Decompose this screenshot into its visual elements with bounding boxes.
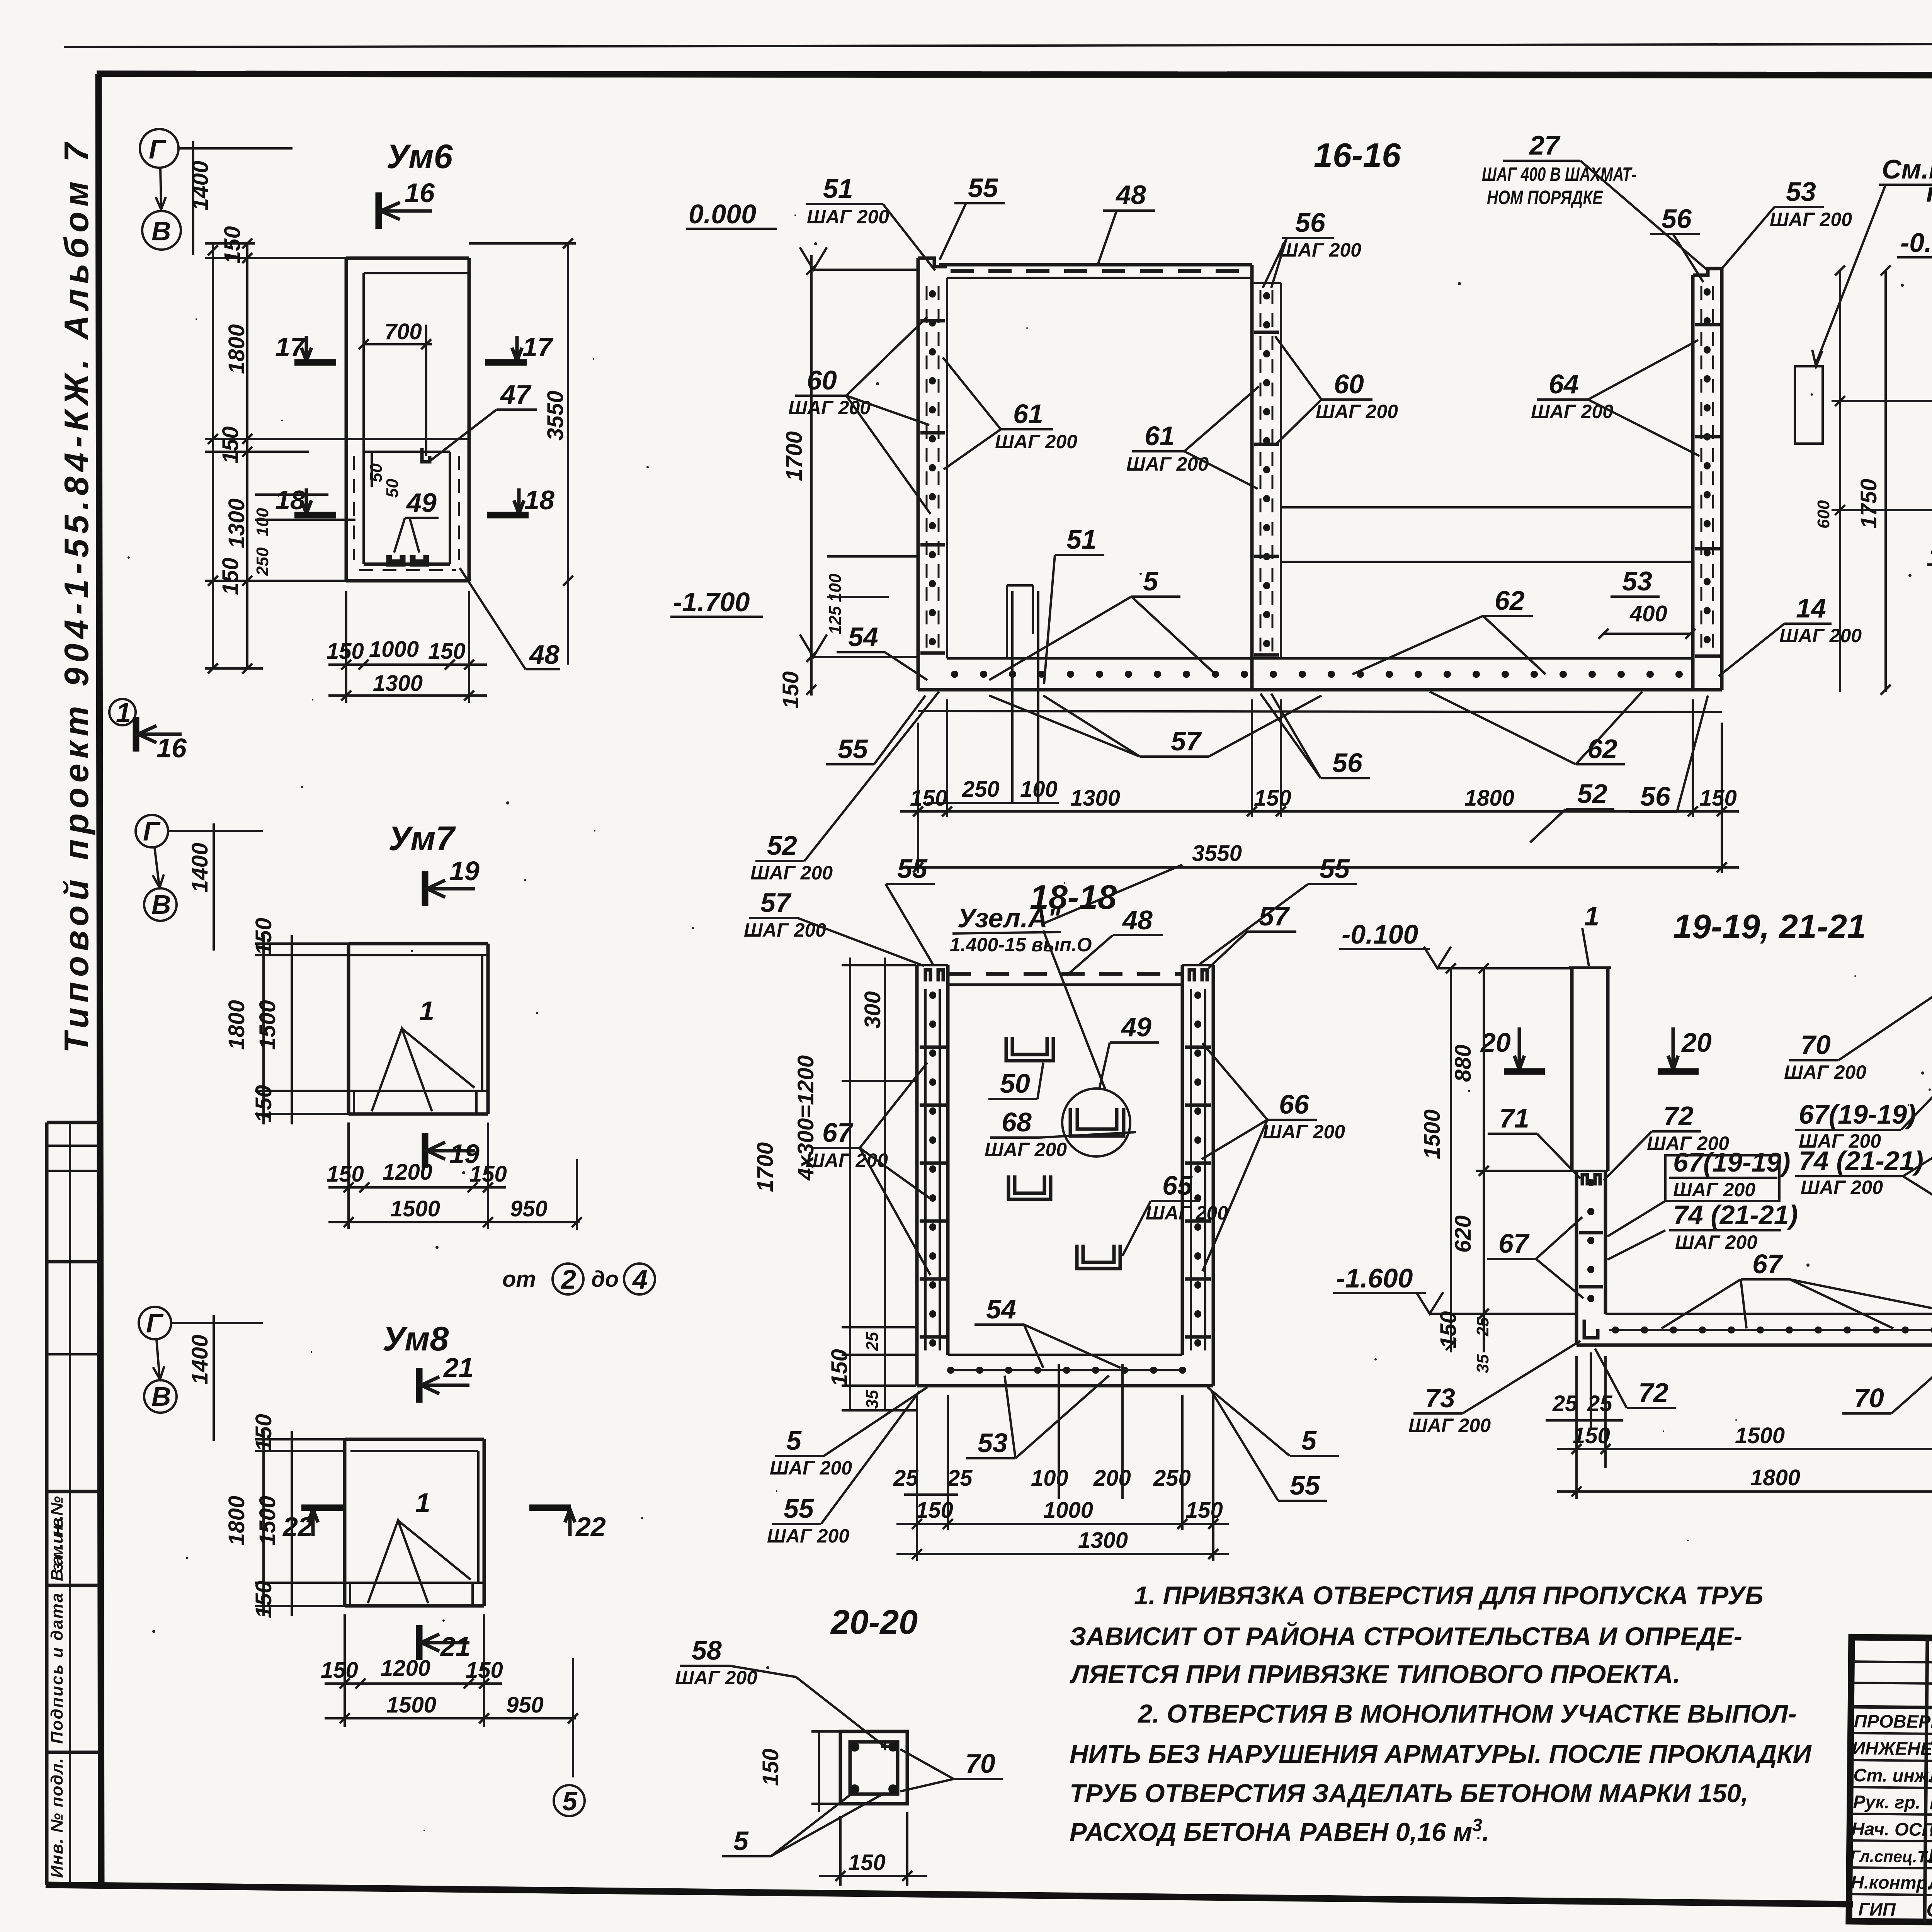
- svg-text:1: 1: [419, 996, 434, 1026]
- svg-text:-0.100: -0.100: [1900, 228, 1932, 258]
- svg-text:55: 55: [784, 1493, 814, 1524]
- svg-text:ШАГ 200: ШАГ 200: [985, 1139, 1067, 1160]
- svg-text:1300: 1300: [1070, 786, 1120, 811]
- svg-text:100: 100: [253, 508, 272, 536]
- svg-text:1500: 1500: [1420, 1109, 1445, 1159]
- svg-text:2. ОТВЕРСТИЯ В МОНОЛИТНОМ У: 2. ОТВЕРСТИЯ В МОНОЛИТНОМ УЧАСТКЕ ВЫПОЛ-: [1137, 1699, 1797, 1728]
- svg-text:ГИП: ГИП: [1858, 1899, 1896, 1920]
- svg-text:74 (21-21): 74 (21-21): [1799, 1146, 1923, 1176]
- svg-text:Г: Г: [143, 816, 161, 846]
- svg-text:ШАГ 200: ШАГ 200: [1779, 625, 1862, 646]
- svg-text:п. N1: п. N1: [1926, 177, 1932, 207]
- svg-text:ПРОВЕРИЛ: ПРОВЕРИЛ: [1854, 1711, 1932, 1732]
- svg-text:В: В: [151, 216, 171, 246]
- svg-text:19-19, 21-21: 19-19, 21-21: [1673, 907, 1866, 946]
- svg-text:1: 1: [116, 697, 131, 728]
- svg-text:14: 14: [1796, 593, 1826, 623]
- svg-text:55: 55: [838, 734, 868, 764]
- svg-text:1500: 1500: [255, 1496, 280, 1546]
- svg-text:700: 700: [384, 319, 422, 344]
- svg-text:70: 70: [965, 1748, 995, 1779]
- svg-text:150: 150: [848, 1850, 886, 1875]
- svg-text:150: 150: [220, 226, 245, 264]
- svg-text:3550: 3550: [543, 391, 568, 440]
- svg-text:56: 56: [1640, 781, 1671, 811]
- svg-text:ШАГ 200: ШАГ 200: [1673, 1179, 1755, 1201]
- svg-text:49: 49: [406, 488, 437, 518]
- svg-text:66: 66: [1279, 1089, 1310, 1119]
- svg-text:74 (21-21): 74 (21-21): [1673, 1200, 1798, 1230]
- svg-text:150: 150: [251, 1581, 276, 1618]
- svg-text:Н.контр.: Н.контр.: [1851, 1872, 1932, 1893]
- svg-text:150: 150: [916, 1498, 953, 1523]
- svg-text:150: 150: [327, 639, 364, 664]
- svg-text:17: 17: [522, 332, 554, 362]
- svg-text:57: 57: [1259, 901, 1290, 931]
- svg-text:5: 5: [1143, 566, 1158, 596]
- svg-text:ЗАВИСИТ ОТ РАЙОНА СТРОИТЕЛЬ: ЗАВИСИТ ОТ РАЙОНА СТРОИТЕЛЬСТВА И ОПРЕДЕ…: [1070, 1622, 1742, 1651]
- svg-text:72: 72: [1663, 1101, 1694, 1131]
- svg-text:150: 150: [466, 1658, 503, 1683]
- svg-text:18: 18: [275, 485, 305, 515]
- svg-text:ШАГ 200: ШАГ 200: [1316, 401, 1398, 422]
- svg-text:1500: 1500: [1735, 1423, 1785, 1448]
- svg-text:250: 250: [962, 777, 1000, 802]
- svg-text:ШАГ 200: ШАГ 200: [1408, 1415, 1491, 1436]
- svg-text:Г: Г: [149, 134, 167, 164]
- svg-text:4х300=1200: 4х300=1200: [793, 1055, 818, 1181]
- svg-text:56: 56: [1295, 207, 1326, 238]
- svg-text:150: 150: [251, 1085, 276, 1122]
- svg-text:ШАГ 200: ШАГ 200: [807, 206, 889, 228]
- svg-text:ИНЖЕНЕР: ИНЖЕНЕР: [1852, 1738, 1932, 1759]
- svg-text:5: 5: [1301, 1425, 1317, 1456]
- svg-text:НОМ ПОРЯДКЕ: НОМ ПОРЯДКЕ: [1487, 187, 1603, 208]
- svg-text:57: 57: [760, 888, 792, 918]
- svg-text:Ум8: Ум8: [383, 1320, 449, 1358]
- svg-text:от: от: [502, 1267, 536, 1292]
- svg-text:-0.100: -0.100: [1342, 919, 1418, 949]
- svg-text:1700: 1700: [753, 1142, 778, 1192]
- svg-text:150: 150: [1254, 786, 1291, 811]
- svg-text:Ст. инж.: Ст. инж.: [1853, 1765, 1932, 1786]
- svg-text:150: 150: [758, 1748, 783, 1786]
- svg-text:54: 54: [848, 622, 878, 652]
- svg-text:Типовой проект 904-1-55.84-К: Типовой проект 904-1-55.84-КЖ. Альбом 7: [57, 141, 95, 1053]
- svg-text:67: 67: [822, 1117, 854, 1148]
- svg-text:73: 73: [1425, 1383, 1455, 1413]
- svg-text:МОРГУНОВ: МОРГУНОВ: [1930, 1791, 1932, 1815]
- svg-text:-1.600: -1.600: [1336, 1263, 1413, 1293]
- svg-text:1800: 1800: [1750, 1465, 1800, 1490]
- svg-text:ШАГ 200: ШАГ 200: [1675, 1231, 1757, 1253]
- svg-text:См.примечание: См.примечание: [1882, 154, 1932, 184]
- svg-text:МАКАРОВА: МАКАРОВА: [1930, 1765, 1932, 1788]
- svg-text:1500: 1500: [255, 1000, 280, 1050]
- svg-text:61: 61: [1013, 399, 1043, 429]
- svg-text:ЛЯЕТСЯ ПРИ ПРИВЯЗКЕ ТИПОВОГ: ЛЯЕТСЯ ПРИ ПРИВЯЗКЕ ТИПОВОГО ПРОЕКТА.: [1069, 1660, 1680, 1689]
- svg-text:150: 150: [251, 918, 276, 955]
- svg-text:1750: 1750: [1856, 479, 1881, 529]
- svg-text:16: 16: [405, 178, 435, 208]
- svg-text:Толмачева: Толмачева: [1929, 1738, 1932, 1761]
- svg-text:ШАГ 200: ШАГ 200: [1279, 239, 1361, 261]
- svg-text:25: 25: [893, 1466, 918, 1491]
- svg-text:620: 620: [1451, 1215, 1476, 1253]
- svg-text:35: 35: [1473, 1354, 1492, 1373]
- svg-text:Узел.А": Узел.А": [957, 903, 1061, 933]
- svg-text:ТРУБ ОТВЕРСТИЯ ЗАДЕЛАТЬ БЕТ: ТРУБ ОТВЕРСТИЯ ЗАДЕЛАТЬ БЕТОНОМ МАРКИ 15…: [1070, 1779, 1748, 1808]
- svg-text:до: до: [591, 1267, 619, 1292]
- svg-text:60: 60: [1334, 369, 1364, 399]
- svg-text:50: 50: [1000, 1068, 1030, 1099]
- svg-text:4: 4: [632, 1264, 648, 1294]
- svg-text:47: 47: [500, 379, 532, 410]
- svg-text:22: 22: [282, 1512, 313, 1542]
- svg-text:22: 22: [575, 1512, 606, 1542]
- svg-text:20-20: 20-20: [830, 1603, 918, 1641]
- svg-text:0.000: 0.000: [689, 199, 756, 229]
- svg-text:21: 21: [443, 1352, 474, 1383]
- svg-text:48: 48: [529, 639, 560, 670]
- svg-text:51: 51: [1066, 524, 1097, 554]
- svg-text:Ум7: Ум7: [388, 819, 456, 857]
- svg-text:ШАГ 400 В ШАХМАТ-: ШАГ 400 В ШАХМАТ-: [1482, 163, 1636, 185]
- svg-text:25: 25: [947, 1466, 973, 1491]
- svg-text:55: 55: [1320, 854, 1350, 884]
- svg-text:17: 17: [275, 332, 306, 362]
- svg-text:ШАГ 200: ШАГ 200: [744, 919, 826, 941]
- svg-text:1: 1: [1584, 901, 1599, 931]
- svg-text:-1.525: -1.525: [1930, 535, 1932, 565]
- svg-text:150: 150: [251, 1414, 276, 1451]
- svg-text:62: 62: [1587, 734, 1617, 764]
- svg-text:62: 62: [1495, 585, 1525, 616]
- svg-text:200: 200: [1093, 1466, 1131, 1491]
- svg-text:1300: 1300: [224, 498, 249, 548]
- svg-text:67: 67: [1752, 1249, 1784, 1279]
- svg-text:58: 58: [692, 1635, 722, 1665]
- svg-text:Гл.спец.Т.О.: Гл.спец.Т.О.: [1850, 1847, 1932, 1866]
- svg-text:56: 56: [1332, 748, 1363, 778]
- svg-text:55: 55: [968, 173, 998, 203]
- svg-text:ШАГ 200: ШАГ 200: [770, 1457, 852, 1479]
- svg-text:1. ПРИВЯЗКА ОТВЕРСТИЯ ДЛЯ П: 1. ПРИВЯЗКА ОТВЕРСТИЯ ДЛЯ ПРОПУСКА ТРУБ: [1134, 1581, 1763, 1610]
- svg-text:-1.700: -1.700: [673, 587, 750, 617]
- svg-text:5: 5: [562, 1786, 578, 1816]
- svg-text:600: 600: [1814, 500, 1833, 529]
- svg-text:150: 150: [1573, 1423, 1610, 1448]
- svg-text:НИТЬ БЕЗ НАРУШЕНИЯ АРМАТУРЫ: НИТЬ БЕЗ НАРУШЕНИЯ АРМАТУРЫ. ПОСЛЕ ПРОКЛ…: [1070, 1740, 1812, 1769]
- svg-text:21: 21: [440, 1631, 471, 1662]
- svg-text:300: 300: [860, 991, 885, 1029]
- svg-text:19: 19: [449, 856, 480, 886]
- svg-text:67: 67: [1498, 1228, 1530, 1259]
- svg-text:1.400-15 вып.О: 1.400-15 вып.О: [950, 934, 1092, 956]
- svg-text:67(19-19): 67(19-19): [1799, 1099, 1916, 1129]
- svg-text:1800: 1800: [224, 1000, 249, 1050]
- svg-text:400: 400: [1629, 601, 1667, 626]
- svg-text:27: 27: [1529, 130, 1561, 160]
- svg-text:150: 150: [1436, 1311, 1461, 1349]
- svg-text:1700: 1700: [782, 431, 807, 481]
- svg-text:ШАГ 200: ШАГ 200: [1801, 1177, 1883, 1198]
- svg-text:64: 64: [1549, 369, 1579, 399]
- svg-text:150: 150: [218, 558, 243, 595]
- svg-text:18: 18: [524, 485, 554, 515]
- svg-text:20: 20: [1681, 1027, 1712, 1058]
- svg-text:Инв. № подл.: Инв. № подл.: [48, 1758, 66, 1878]
- svg-text:150: 150: [910, 786, 947, 811]
- svg-text:Нач. ОСП: Нач. ОСП: [1851, 1818, 1932, 1840]
- svg-text:ШАГ 200: ШАГ 200: [1531, 401, 1613, 422]
- svg-text:ШАГ 200: ШАГ 200: [1146, 1202, 1228, 1224]
- svg-text:Взам. инв. №: Взам. инв. №: [48, 1496, 66, 1581]
- svg-text:1800: 1800: [224, 324, 249, 374]
- svg-text:100: 100: [1031, 1466, 1068, 1491]
- svg-text:Ум6: Ум6: [386, 137, 453, 175]
- svg-text:150: 150: [327, 1162, 364, 1187]
- svg-text:250: 250: [1153, 1466, 1191, 1491]
- svg-text:71: 71: [1499, 1103, 1529, 1133]
- svg-text:ШАГ 200: ШАГ 200: [767, 1525, 849, 1547]
- svg-text:72: 72: [1638, 1378, 1668, 1408]
- svg-text:В: В: [151, 1381, 171, 1412]
- svg-text:1200: 1200: [383, 1160, 432, 1185]
- svg-text:61: 61: [1145, 421, 1175, 451]
- svg-text:950: 950: [506, 1692, 544, 1718]
- svg-text:53: 53: [1786, 177, 1816, 207]
- svg-text:16: 16: [156, 733, 187, 763]
- svg-text:48: 48: [1122, 905, 1153, 935]
- svg-text:880: 880: [1451, 1044, 1476, 1082]
- svg-text:ШАГ 200: ШАГ 200: [1263, 1121, 1345, 1143]
- svg-text:1500: 1500: [390, 1196, 440, 1221]
- svg-text:5: 5: [786, 1425, 802, 1456]
- svg-text:ШАГ 200: ШАГ 200: [750, 862, 833, 884]
- svg-text:Боярченко: Боярченко: [1928, 1845, 1932, 1869]
- svg-text:Рук. гр.: Рук. гр.: [1853, 1791, 1921, 1813]
- svg-text:51: 51: [823, 173, 853, 204]
- svg-text:55: 55: [897, 854, 928, 884]
- svg-text:52: 52: [767, 830, 797, 861]
- svg-text:52: 52: [1577, 779, 1607, 809]
- svg-text:1200: 1200: [381, 1656, 430, 1681]
- svg-text:2: 2: [560, 1264, 576, 1294]
- svg-text:65: 65: [1162, 1170, 1193, 1201]
- svg-text:67(19-19): 67(19-19): [1673, 1147, 1791, 1177]
- svg-text:48: 48: [1115, 180, 1146, 210]
- svg-text:150: 150: [827, 1349, 852, 1386]
- svg-text:1000: 1000: [1043, 1498, 1093, 1523]
- svg-text:54: 54: [986, 1294, 1016, 1324]
- svg-text:1400: 1400: [188, 161, 213, 211]
- svg-text:25: 25: [1552, 1391, 1578, 1416]
- svg-text:150: 150: [778, 671, 803, 709]
- svg-text:РАСХОД БЕТОНА РАВЕН 0,16 м3: РАСХОД БЕТОНА РАВЕН 0,16 м3.: [1070, 1815, 1489, 1847]
- svg-text:1000: 1000: [369, 637, 419, 662]
- svg-text:ШАГ 200: ШАГ 200: [995, 431, 1077, 452]
- svg-text:СААКЬЯНЦ: СААКЬЯНЦ: [1929, 1818, 1932, 1842]
- svg-text:70: 70: [1801, 1030, 1831, 1060]
- svg-text:68: 68: [1002, 1107, 1032, 1137]
- svg-text:57: 57: [1171, 726, 1202, 756]
- svg-text:55: 55: [1290, 1470, 1320, 1500]
- svg-text:16-16: 16-16: [1314, 136, 1401, 174]
- svg-text:1500: 1500: [386, 1692, 436, 1718]
- svg-text:25: 25: [863, 1332, 882, 1351]
- svg-text:150: 150: [321, 1658, 358, 1683]
- svg-text:5: 5: [733, 1826, 749, 1856]
- svg-text:49: 49: [1121, 1012, 1151, 1042]
- svg-text:53: 53: [978, 1428, 1008, 1458]
- svg-text:1400: 1400: [187, 843, 213, 893]
- svg-text:150: 150: [218, 426, 243, 464]
- svg-text:Г: Г: [146, 1308, 164, 1338]
- svg-text:150: 150: [469, 1162, 507, 1187]
- svg-text:950: 950: [510, 1196, 548, 1221]
- svg-text:50: 50: [383, 479, 402, 498]
- svg-text:35: 35: [863, 1390, 882, 1409]
- svg-text:70: 70: [1854, 1383, 1884, 1413]
- svg-text:1: 1: [415, 1488, 430, 1518]
- svg-text:150: 150: [1185, 1498, 1223, 1523]
- svg-text:1800: 1800: [224, 1496, 249, 1546]
- svg-text:150: 150: [1699, 786, 1737, 811]
- svg-text:150: 150: [428, 639, 466, 664]
- svg-text:250: 250: [253, 547, 272, 576]
- svg-text:Подпись и дата: Подпись и дата: [48, 1593, 66, 1744]
- svg-text:Осташевский: Осташевский: [1926, 1899, 1932, 1923]
- svg-text:1800: 1800: [1464, 786, 1514, 811]
- svg-text:25: 25: [1473, 1317, 1492, 1337]
- svg-text:53: 53: [1622, 566, 1652, 596]
- svg-text:125: 125: [826, 606, 845, 634]
- svg-text:В: В: [151, 889, 171, 920]
- svg-text:ШАГ 200: ШАГ 200: [675, 1667, 757, 1689]
- svg-text:ШАГ 200: ШАГ 200: [1784, 1061, 1866, 1083]
- svg-text:1300: 1300: [373, 671, 423, 696]
- svg-text:1400: 1400: [187, 1335, 213, 1384]
- svg-text:ШАГ 200: ШАГ 200: [1770, 209, 1852, 230]
- svg-text:60: 60: [807, 365, 837, 395]
- svg-text:3550: 3550: [1192, 841, 1242, 866]
- svg-text:1300: 1300: [1078, 1528, 1128, 1553]
- svg-text:56: 56: [1662, 204, 1692, 234]
